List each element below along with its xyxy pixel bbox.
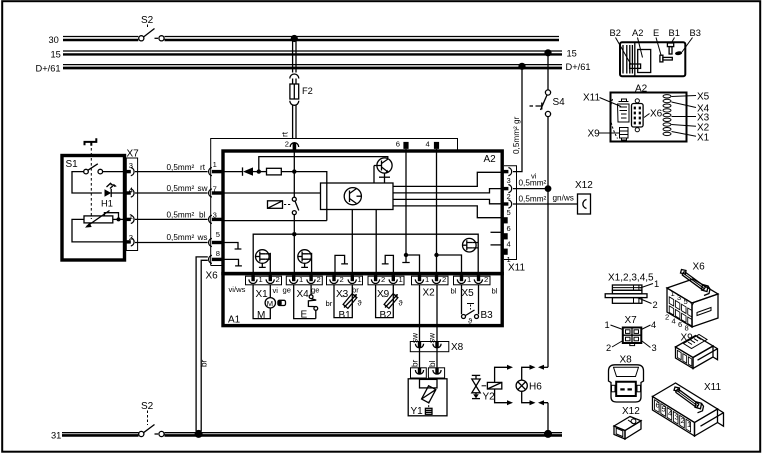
svg-text:rt: rt [281, 131, 290, 137]
junction at rt feed [292, 169, 296, 173]
svg-text:2: 2 [606, 343, 611, 353]
svg-text:5: 5 [684, 297, 688, 306]
wire H6 to ground arrow [522, 391, 530, 402]
connector X6 in view [632, 99, 644, 132]
ground branch to bus 31 (arrow) [544, 403, 548, 431]
svg-text:X5: X5 [462, 288, 475, 299]
lamp H6 [516, 380, 542, 392]
X11 pin 6 [502, 217, 510, 233]
svg-text:3: 3 [507, 176, 511, 185]
svg-text:E: E [301, 310, 308, 321]
svg-text:B1: B1 [669, 28, 680, 38]
leader E [656, 38, 661, 56]
svg-text:15: 15 [567, 49, 577, 59]
resistor in A2 [267, 168, 282, 175]
svg-text:S4: S4 [553, 97, 566, 108]
top face [614, 417, 641, 431]
svg-text:0,5mm²: 0,5mm² [519, 179, 547, 188]
Y2 coil [482, 385, 487, 387]
front face [614, 426, 625, 439]
svg-text:rt: rt [200, 163, 206, 172]
svg-text:0,5mm²: 0,5mm² [167, 184, 195, 193]
potentiometer in S1 [84, 211, 124, 228]
svg-text:1: 1 [654, 279, 659, 289]
svg-text:M: M [257, 310, 265, 321]
relay coil in A2 [268, 201, 292, 209]
unit A2 in view [638, 50, 651, 73]
amplifier block U1 in A2 [321, 183, 394, 210]
svg-text:X9: X9 [588, 129, 601, 140]
rear step [698, 346, 718, 360]
connector X11 in view [618, 99, 630, 122]
X11 pin 1 [502, 249, 510, 264]
housing outline [620, 42, 685, 76]
junction and branch to X2-1 [404, 253, 408, 257]
svg-text:X4: X4 [297, 289, 310, 300]
ground bus 31 [51, 431, 562, 441]
clip B3 in view [675, 51, 683, 56]
stub U4 to edge [491, 244, 503, 246]
svg-text:H1: H1 [101, 199, 113, 209]
screw B1 in view [667, 43, 673, 47]
wire switch to X7 pin 3 [103, 171, 124, 173]
svg-text:6: 6 [396, 140, 400, 149]
svg-text:bl: bl [492, 287, 498, 296]
svg-text:5: 5 [216, 230, 220, 239]
svg-text:0,5mm²: 0,5mm² [167, 211, 195, 220]
svg-text:ge: ge [283, 286, 291, 295]
svg-text:6: 6 [678, 320, 682, 329]
node D+/61 (alternator bus) [36, 62, 591, 74]
svg-text:1: 1 [671, 289, 675, 298]
X11 pin 5 [502, 200, 511, 217]
actuator dashed link [90, 148, 92, 219]
wire X1-2 riser [269, 253, 271, 277]
X6 pin 5 [209, 230, 222, 247]
svg-text:4: 4 [426, 140, 430, 149]
svg-text:S2: S2 [141, 15, 154, 26]
leader B1 [672, 38, 675, 43]
svg-text:1: 1 [507, 255, 511, 264]
transistor Q1 (in A2, top right) [374, 158, 392, 183]
pictorial: connector X6 (8-pin housing) [665, 262, 718, 333]
connector X9 (2 pins) [368, 275, 404, 300]
svg-text:1: 1 [605, 320, 610, 330]
svg-text:1: 1 [259, 275, 263, 284]
junction rail/relay feed [292, 232, 296, 236]
svg-text:D+/61: D+/61 [566, 62, 591, 72]
svg-text:X11: X11 [583, 93, 600, 104]
top face [667, 279, 718, 303]
svg-text:0,5mm²: 0,5mm² [167, 233, 195, 242]
connector X2 (2 pins) [412, 275, 449, 299]
junction H6 return on bus 31 [544, 430, 552, 438]
connector X12 (inline socket) [575, 180, 593, 214]
svg-text:H6: H6 [529, 382, 542, 393]
svg-text:2: 2 [484, 275, 488, 284]
connector X8 [410, 342, 463, 354]
svg-text:5: 5 [662, 405, 666, 414]
wire pot low end to X7 pin 2 [72, 219, 124, 242]
connector X5 (2 pins) [454, 275, 491, 299]
junction on bus 30 [291, 35, 298, 42]
switch contact in S1 [84, 169, 89, 174]
svg-text:2: 2 [340, 275, 344, 284]
svg-text:X2: X2 [423, 288, 436, 299]
svg-text:4: 4 [668, 409, 672, 418]
svg-text:sw: sw [198, 184, 208, 193]
A2 top pin 6 [396, 140, 409, 149]
X6 pin 3 [209, 211, 222, 224]
wire resistor to corner [281, 172, 327, 221]
wires X8 to Y1 plugs (br, bl) [420, 348, 438, 368]
front face [667, 288, 692, 327]
svg-text:3: 3 [675, 413, 679, 422]
junction on bus 15 [544, 49, 551, 56]
svg-text:gn/ws: gn/ws [553, 194, 574, 203]
wire A2 pin 5 to X12 (gn/ws) [513, 203, 578, 205]
svg-text:1: 1 [213, 160, 217, 169]
connector X4 (2 pins) [286, 275, 322, 300]
fuse F2 [290, 84, 313, 99]
right face [693, 346, 713, 369]
wire A2 pin1 row (diode/resistor row) [224, 171, 243, 173]
wire X7-2 to X6-5 (ws) [135, 242, 208, 244]
svg-text:2: 2 [442, 275, 446, 284]
pin holes (2x4) [669, 297, 692, 326]
wire S4 down to junction at A2 pin 2 row [547, 117, 549, 368]
svg-text:0,5mm²: 0,5mm² [519, 195, 547, 204]
plug at Y1 pin 2 [428, 368, 444, 378]
switch S2 (bottom, on bus 31) [139, 401, 164, 437]
thermo switch B3 (in A1) [462, 285, 494, 326]
top face [676, 336, 714, 358]
wire X7-1 to X6-3 (bl) [135, 218, 208, 220]
big box outputs to X11 pins [393, 172, 502, 186]
wire Y2 coil to supply arrow [495, 367, 507, 382]
front face [676, 347, 694, 369]
svg-text:31: 31 [51, 431, 61, 441]
top face [653, 383, 718, 423]
relay contact in A2 (on pin2 feed) [292, 151, 299, 232]
wire D+/61 down to A2 pin 3 (gr) [513, 66, 522, 171]
X11 pin 3 [502, 168, 511, 186]
svg-text:A2: A2 [484, 154, 497, 165]
svg-text:vi: vi [273, 286, 279, 295]
lamp H1 (LED) [101, 182, 124, 208]
temperature sensor B2 (in A1) [376, 285, 404, 321]
X6 pin 1 [209, 160, 222, 176]
connector X1 (2 pins) [246, 275, 282, 300]
X6 pin 8 [209, 249, 222, 264]
svg-text:B3: B3 [481, 310, 494, 321]
wire 30 thick [63, 39, 559, 41]
svg-text:3: 3 [677, 293, 681, 302]
svg-text:2: 2 [681, 416, 685, 425]
switch unit S1 [62, 138, 125, 260]
svg-text:F2: F2 [302, 86, 313, 96]
svg-text:1: 1 [687, 420, 691, 429]
svg-text:2: 2 [665, 313, 669, 322]
actuator unit A1 [223, 274, 502, 326]
junction on bus D+/61 [518, 63, 525, 70]
svg-text:ge: ge [311, 286, 319, 295]
switch S4 [530, 90, 566, 117]
wire from bus 30 down to F2 (rt, double line) [293, 39, 296, 73]
slots and numbers [655, 400, 691, 432]
connector X11 shell (right of A2) [504, 166, 525, 274]
A2 top pin 4 [426, 140, 440, 149]
svg-text:B3: B3 [690, 28, 701, 38]
manual actuator symbol above S1 [85, 138, 97, 146]
wire internal rail y234 [253, 234, 478, 277]
latch [674, 387, 704, 413]
svg-text:X1,2,3,4,5: X1,2,3,4,5 [608, 273, 654, 284]
wire relay feed down to X4-1 [293, 234, 295, 277]
svg-text:X12: X12 [622, 406, 640, 417]
X11 pin 2 [502, 185, 511, 202]
svg-text:X11: X11 [508, 263, 525, 274]
svg-text:4: 4 [651, 320, 656, 330]
wire 30 thin [63, 36, 559, 38]
open stub below junction [402, 255, 409, 263]
svg-text:X5: X5 [697, 92, 710, 103]
wire X7-3 to X6-1 (rt) [135, 171, 208, 173]
svg-text:vi/ws: vi/ws [229, 285, 246, 294]
screw E in view [660, 55, 663, 62]
connector symbol above F2 [290, 74, 299, 79]
svg-text:X1: X1 [697, 133, 710, 144]
junction S4 wire to A2 pin 2 [545, 185, 552, 192]
output stage U3 (FET) [298, 250, 312, 277]
svg-text:30: 30 [49, 35, 59, 45]
svg-text:X11: X11 [704, 382, 721, 393]
svg-text:br: br [200, 359, 209, 367]
wire A2 pin3 row [224, 220, 327, 222]
pictorial: connector X8 (front) [609, 355, 644, 403]
svg-text:B1: B1 [339, 310, 352, 321]
junction and branch to X5-1 [434, 253, 438, 257]
svg-text:X6: X6 [650, 109, 663, 120]
wire S1 internal left rail [72, 172, 102, 193]
X11 pin 4 [502, 233, 510, 248]
terminal stack X1-X5 in view [663, 95, 671, 136]
wire H6 to supply arrow [522, 367, 530, 380]
svg-text:B2: B2 [610, 28, 621, 38]
pictorial: connector X11 (3D multiway) [653, 382, 724, 436]
svg-text:0,5mm²: 0,5mm² [167, 163, 195, 172]
wire top pin6 down to X2-1 [405, 149, 407, 255]
svg-text:A1: A1 [228, 315, 241, 326]
stub pin 4 internal [491, 231, 503, 233]
svg-text:br: br [411, 359, 420, 367]
wire X6-8 to ground bus 31 (br, double) [196, 257, 208, 431]
hook stub X6-8 internal [224, 259, 242, 266]
heatsink fins [623, 45, 632, 74]
wire X7-4 to X6-7 (sw) [135, 192, 208, 194]
svg-text:1: 1 [467, 275, 471, 284]
wire A2 pin 2 to S4 line (vi) [513, 188, 548, 190]
svg-text:2: 2 [276, 275, 280, 284]
node 30 (battery bus) [49, 35, 560, 45]
hook stub X9-1 [382, 255, 394, 277]
slot on right face [697, 308, 711, 316]
svg-text:br: br [352, 286, 359, 295]
svg-text:X7: X7 [625, 315, 638, 326]
svg-text:bl: bl [451, 287, 457, 296]
svg-text:1: 1 [358, 275, 362, 284]
svg-text:0,5mm² gr: 0,5mm² gr [512, 116, 521, 154]
svg-text:S2: S2 [141, 401, 154, 412]
svg-text:B2: B2 [380, 310, 393, 321]
pictorial: connector X9 (3D) [676, 333, 718, 369]
svg-text:E: E [653, 28, 659, 38]
wire bus 15 down to S4 [547, 53, 549, 90]
switch S2 (top, on bus 30) [139, 15, 164, 41]
svg-text:1: 1 [399, 275, 403, 284]
svg-text:4: 4 [507, 240, 511, 249]
svg-text:D+/61: D+/61 [36, 64, 61, 74]
location view: A2 connector side [583, 84, 710, 144]
svg-text:7: 7 [690, 301, 694, 310]
solenoid valve Y1 [408, 379, 447, 417]
front face [653, 397, 695, 437]
A2 top pin 2 [285, 140, 299, 151]
node 15 (ignition bus) [51, 49, 577, 60]
svg-text:ws: ws [197, 233, 208, 242]
svg-text:8: 8 [216, 249, 220, 258]
plug at Y1 pin 1 [411, 368, 427, 378]
valve Y2 [472, 375, 502, 402]
svg-text:br: br [326, 299, 333, 308]
connector X3 (2 pins) [327, 275, 363, 300]
junction br wire on bus 31 [195, 430, 203, 438]
pictorial: connector X12 (3D) [614, 406, 641, 439]
rear step [701, 409, 724, 426]
svg-text:2: 2 [317, 275, 321, 284]
svg-text:bl: bl [428, 360, 437, 367]
top window [684, 335, 708, 349]
wire Y2 coil to ground arrow [495, 389, 507, 403]
leader B2 [616, 38, 632, 65]
control unit A2 [223, 151, 502, 274]
svg-text:X8: X8 [451, 342, 464, 353]
pictorial: flat terminals X1,2,3,4,5 [605, 273, 659, 311]
latch [681, 270, 711, 296]
X6 pin 7 [209, 184, 222, 197]
leader A2 [638, 38, 643, 58]
svg-text:X6: X6 [206, 271, 219, 282]
wires X2 down through A1 [420, 285, 438, 342]
svg-text:1: 1 [425, 275, 429, 284]
svg-text:4: 4 [672, 317, 676, 326]
svg-text:15: 15 [51, 50, 61, 60]
svg-text:S1: S1 [66, 159, 79, 170]
svg-text:2: 2 [381, 275, 385, 284]
connector symbol below F2 [290, 101, 299, 106]
bracket B2 in view [630, 64, 641, 68]
wires big box down to X3-1 / X9-2 [351, 210, 353, 278]
supply branch from S4 line (arrow) [544, 366, 548, 368]
right face [625, 421, 641, 439]
svg-text:6: 6 [656, 401, 660, 410]
svg-text:Y1: Y1 [411, 406, 424, 417]
output stage U4 (FET) [463, 238, 479, 252]
svg-text:X8: X8 [620, 355, 633, 366]
junction pin1 row [257, 169, 261, 173]
slots [677, 350, 691, 366]
svg-text:X6: X6 [693, 262, 706, 273]
right face [695, 409, 718, 436]
svg-text:M: M [267, 299, 273, 308]
front recess [616, 428, 623, 436]
svg-text:bl: bl [199, 211, 206, 220]
output stage U2 (FET) [255, 250, 270, 268]
hook stub X3-2 [335, 255, 348, 277]
pictorial: connector X7 [605, 315, 657, 353]
svg-text:2: 2 [285, 140, 289, 149]
hook stub X6-5 internal [224, 243, 241, 250]
leader B3 [682, 38, 693, 53]
wire top rail to transistor [259, 157, 388, 172]
wire top pin4 down to X2-2 [436, 149, 438, 277]
svg-text:Y2: Y2 [483, 392, 496, 403]
connector X6 shell (left of A2) [206, 139, 458, 282]
connector X7 (in-line, 4 pins) [124, 149, 140, 251]
latch detail [631, 419, 636, 424]
motor M (in A1) [253, 285, 285, 321]
right face [692, 294, 718, 327]
svg-text:X12: X12 [575, 180, 593, 191]
svg-text:5: 5 [507, 208, 511, 217]
heater element E (in A1) [294, 285, 333, 321]
svg-text:2: 2 [653, 300, 658, 310]
svg-text:6: 6 [507, 224, 511, 233]
connector X9 in view [620, 128, 629, 141]
svg-text:3: 3 [652, 343, 657, 353]
diode in A2 [243, 167, 267, 175]
svg-text:1: 1 [299, 275, 303, 284]
location view: control unit area [610, 28, 701, 76]
wire A2 pin7 row [224, 192, 321, 194]
svg-text:8: 8 [685, 324, 689, 333]
temperature sensor B1 (in A1) [334, 285, 363, 321]
svg-text:A2: A2 [632, 28, 643, 38]
brush icon [278, 300, 286, 305]
wire F2 to A2 pin 2 (rt, double line) [293, 105, 296, 139]
